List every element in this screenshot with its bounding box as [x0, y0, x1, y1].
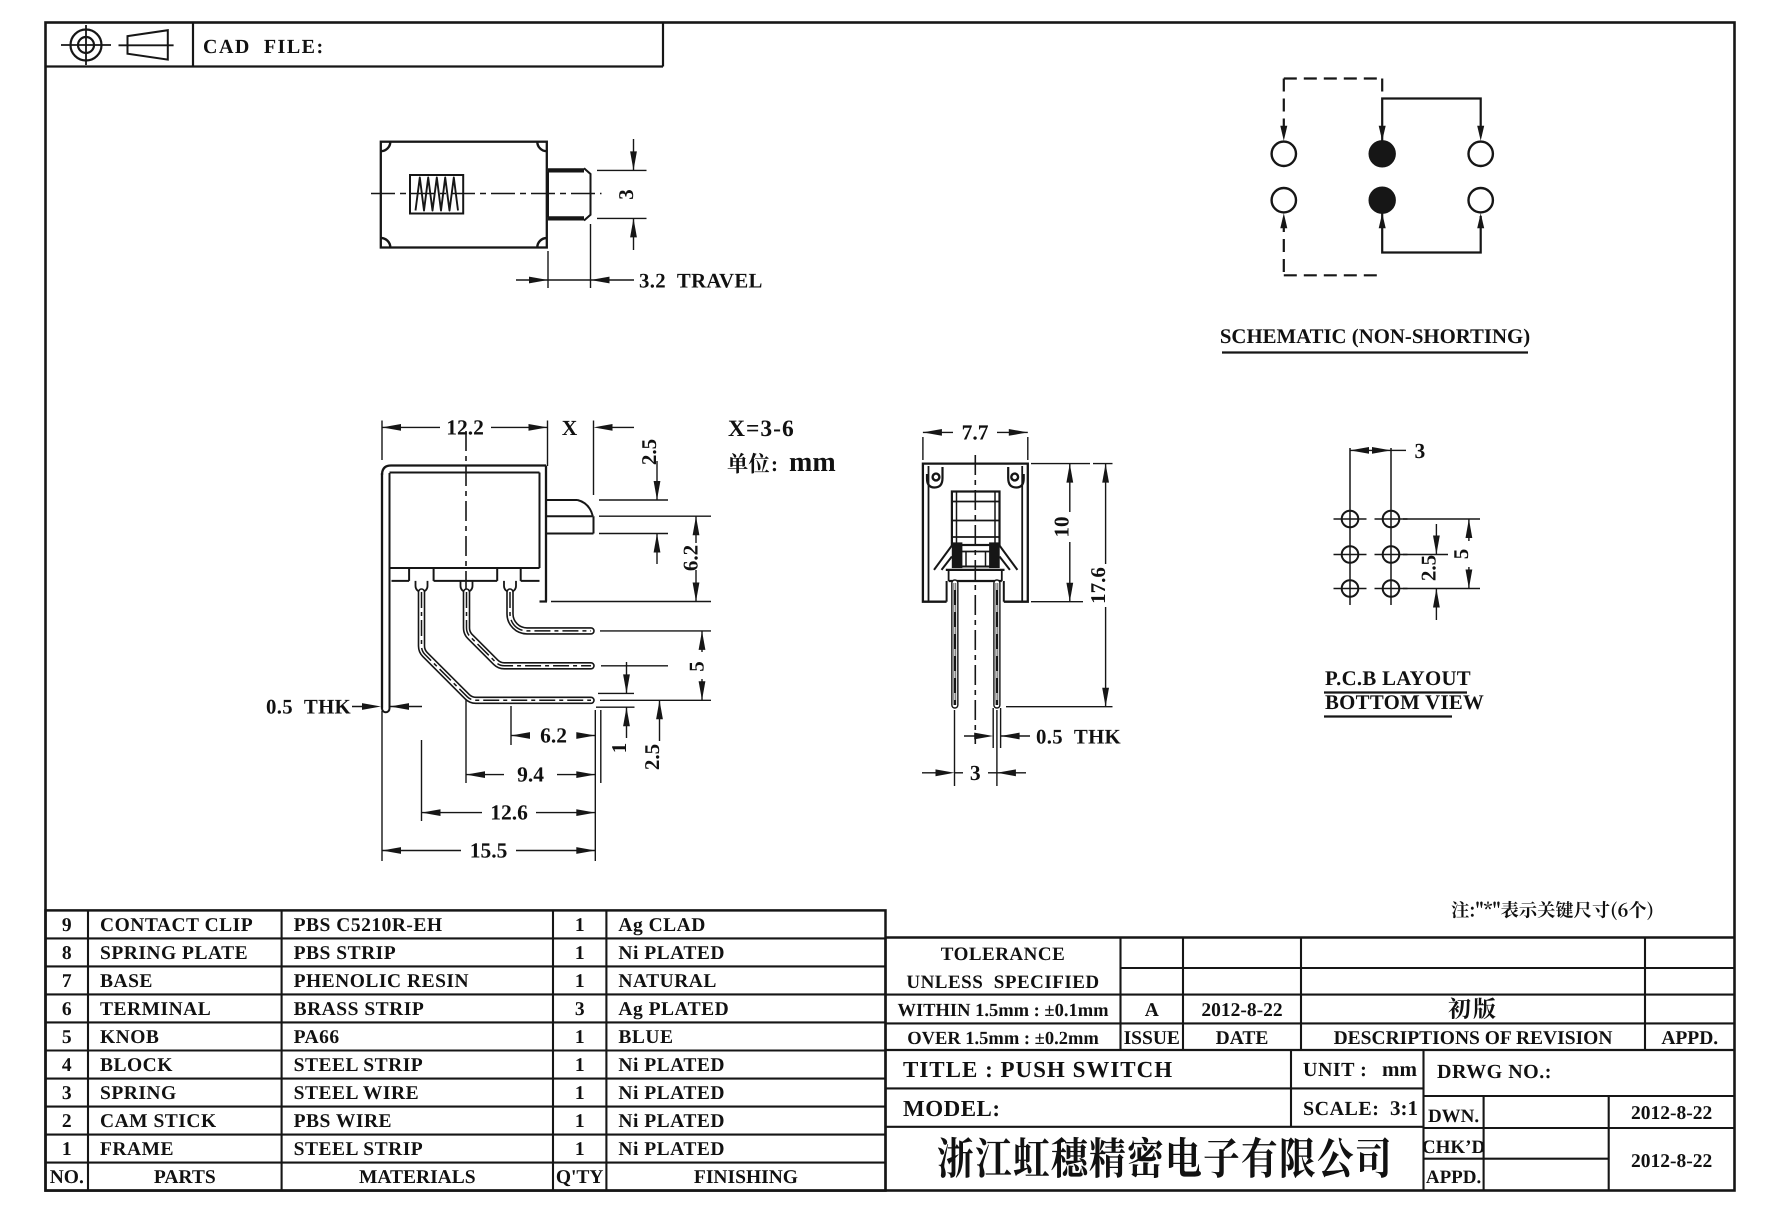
side view: frame front leg (0.5 thk) [389, 473, 391, 709]
svg-text:6: 6 [62, 999, 72, 1020]
top view: center line [371, 193, 602, 195]
front view: dim 10 [1031, 463, 1090, 465]
svg-text:2012-8-22: 2012-8-22 [1631, 1103, 1712, 1124]
schematic: dashed switch outline [1284, 77, 1382, 79]
svg-text:A: A [1145, 1000, 1159, 1021]
svg-text:10: 10 [1050, 517, 1074, 538]
title block grid [886, 936, 1735, 938]
svg-text:ISSUE: ISSUE [1124, 1028, 1180, 1049]
svg-text:PBS WIRE: PBS WIRE [294, 1111, 392, 1132]
svg-text:CAM STICK: CAM STICK [100, 1111, 217, 1132]
svg-text::: : [771, 452, 778, 476]
svg-text:Q'TY: Q'TY [556, 1167, 604, 1188]
side view: dim 2.5 (lower) [659, 700, 661, 741]
top view: spring zigzag [416, 178, 459, 211]
front view: center line [974, 455, 976, 744]
front view: leg extension lines [992, 708, 994, 748]
svg-text:NO.: NO. [50, 1167, 84, 1188]
svg-text:12.6: 12.6 [490, 801, 528, 825]
svg-text:PA66: PA66 [294, 1027, 340, 1048]
front view: body outline [923, 464, 1028, 602]
svg-text:X: X [562, 416, 578, 440]
pcb: dim 3 [1350, 449, 1391, 451]
svg-text:MODEL:: MODEL: [903, 1096, 1001, 1121]
side view: dim 1 (terminal thickness) [598, 692, 634, 694]
svg-text:OVER 1.5mm : ±0.2mm: OVER 1.5mm : ±0.2mm [907, 1029, 1099, 1049]
svg-text:STEEL STRIP: STEEL STRIP [294, 1139, 424, 1160]
front view: dim 7.7 [922, 437, 924, 460]
side view: dim 12.6 [422, 812, 483, 814]
top view: corner fillet arcs [381, 142, 391, 152]
svg-text:3: 3 [575, 999, 585, 1020]
side view: body inner lines [390, 472, 540, 474]
front view: frame ears [927, 467, 943, 488]
side view: dim 6.2 (right) [599, 515, 711, 517]
side view: bottom dimension extension lines [594, 710, 596, 861]
svg-text:PBS C5210R-EH: PBS C5210R-EH [294, 915, 443, 936]
svg-text:9: 9 [62, 915, 72, 936]
side view: center line [465, 431, 467, 592]
top view: plunger stem [548, 168, 584, 172]
svg-text:Ag CLAD: Ag CLAD [618, 915, 705, 936]
schematic: common terminal dots [1369, 141, 1395, 167]
svg-text:BOTTOM VIEW: BOTTOM VIEW [1325, 691, 1484, 714]
svg-text:CONTACT CLIP: CONTACT CLIP [100, 915, 253, 936]
pcb: dim 2.5 [1435, 524, 1437, 555]
svg-text:4: 4 [62, 1055, 72, 1076]
top view: spring housing box [410, 175, 463, 214]
svg-text:1: 1 [607, 743, 631, 754]
svg-text:2.5: 2.5 [1417, 555, 1441, 581]
front view: knob lower stem [962, 551, 990, 553]
side view: body outline outer [382, 466, 546, 476]
front view: knob [952, 492, 1000, 546]
front view: base plate [946, 569, 1005, 571]
svg-text:NATURAL: NATURAL [618, 971, 716, 992]
side view: dim 6.2 (bottom) [511, 735, 527, 737]
front view: dim 3 [922, 772, 948, 774]
front view: inner wall lines [928, 466, 930, 602]
schematic: terminal circles [1272, 142, 1296, 166]
svg-text:6.2: 6.2 [540, 724, 567, 748]
svg-text:5: 5 [685, 661, 709, 672]
side view: dim 9.4 [466, 774, 504, 776]
svg-text:12.2: 12.2 [446, 416, 484, 440]
svg-text:mm: mm [1382, 1057, 1417, 1081]
svg-text:UNLESS SPECIFIED: UNLESS SPECIFIED [906, 972, 1099, 993]
svg-text:2012-8-22: 2012-8-22 [1201, 1000, 1282, 1021]
side view: dim 12.2 [381, 421, 383, 461]
svg-text:DATE: DATE [1216, 1028, 1269, 1049]
svg-text:P.C.B LAYOUT: P.C.B LAYOUT [1325, 667, 1471, 690]
svg-text:0.5 THK: 0.5 THK [1036, 726, 1122, 749]
top view: dim 3.2 TRAVEL [547, 251, 549, 288]
side view: dim X [593, 421, 595, 496]
side view: right wall bottom [540, 600, 548, 602]
side view: dim 15.5 [382, 850, 461, 852]
side view: dim 2.5 (stem height) [599, 499, 668, 501]
note: key dimension remark [1452, 901, 1653, 920]
title block: company name [938, 1137, 1389, 1178]
svg-text:2012-8-22: 2012-8-22 [1631, 1151, 1712, 1172]
svg-text:X=3-6: X=3-6 [728, 416, 795, 442]
svg-text:1: 1 [575, 1083, 585, 1104]
schematic: wire top [1382, 99, 1481, 144]
svg-text:17.6: 17.6 [1086, 567, 1110, 604]
svg-text:SCALE:: SCALE: [1303, 1098, 1379, 1120]
svg-text:1: 1 [575, 971, 585, 992]
front view: contact clips [952, 543, 961, 568]
svg-text:1: 1 [575, 1111, 585, 1132]
top view: dim 3 (stem width) [597, 169, 647, 171]
svg-text:1: 1 [575, 943, 585, 964]
side view: terminal pins (double-line with centerline) [421, 592, 591, 700]
svg-text:DRWG NO.:: DRWG NO.: [1437, 1061, 1552, 1083]
svg-text:3: 3 [614, 189, 638, 200]
svg-text:BASE: BASE [100, 971, 153, 992]
svg-text:MATERIALS: MATERIALS [359, 1167, 476, 1188]
svg-text:PBS STRIP: PBS STRIP [294, 943, 397, 964]
svg-text:5: 5 [62, 1027, 72, 1048]
first-angle projection symbol: cone [128, 30, 168, 59]
svg-text:BLUE: BLUE [618, 1027, 673, 1048]
top view: switch body outline [381, 142, 547, 248]
svg-text:DESCRIPTIONS OF REVISION: DESCRIPTIONS OF REVISION [1334, 1028, 1613, 1049]
svg-text:WITHIN 1.5mm : ±0.1mm: WITHIN 1.5mm : ±0.1mm [897, 1001, 1109, 1021]
svg-text:Ni PLATED: Ni PLATED [618, 1083, 725, 1104]
svg-text:APPD.: APPD. [1426, 1167, 1481, 1188]
svg-text:Ag PLATED: Ag PLATED [618, 999, 729, 1020]
side view: U-notches at pin exits [416, 581, 428, 592]
svg-text:7: 7 [62, 971, 72, 992]
svg-text:BLOCK: BLOCK [100, 1055, 173, 1076]
svg-text:KNOB: KNOB [100, 1027, 159, 1048]
svg-text:UNIT :: UNIT : [1303, 1059, 1367, 1081]
svg-text:1: 1 [575, 1055, 585, 1076]
front view: dim 0.5 THK [964, 735, 986, 737]
schematic: wire bottom [1382, 212, 1481, 253]
svg-text:3: 3 [62, 1083, 72, 1104]
svg-text:1: 1 [575, 915, 585, 936]
front view: dim 17.6 [1093, 463, 1113, 465]
svg-text:5: 5 [1449, 549, 1473, 560]
svg-text:FINISHING: FINISHING [694, 1167, 798, 1188]
parts table grid [46, 910, 886, 1190]
CAD FILE header box [46, 65, 664, 67]
svg-text:1: 1 [575, 1027, 585, 1048]
svg-text:Ni PLATED: Ni PLATED [618, 1139, 725, 1160]
svg-text:TITLE : PUSH SWITCH: TITLE : PUSH SWITCH [903, 1057, 1173, 1082]
svg-text:Ni PLATED: Ni PLATED [618, 1111, 725, 1132]
svg-text:15.5: 15.5 [470, 839, 508, 863]
svg-text:DWN.: DWN. [1428, 1106, 1479, 1127]
pcb: row extension lines [1403, 518, 1480, 520]
svg-text:7.7: 7.7 [962, 421, 989, 445]
svg-text:1: 1 [62, 1139, 72, 1160]
svg-text:0.5 THK: 0.5 THK [266, 696, 352, 719]
svg-text:Ni PLATED: Ni PLATED [618, 1055, 725, 1076]
svg-text:2.5: 2.5 [637, 439, 661, 465]
svg-text:3: 3 [970, 761, 981, 785]
svg-text:SPRING: SPRING [100, 1083, 177, 1104]
schematic: arrows [1280, 126, 1287, 141]
svg-text:2: 2 [62, 1111, 72, 1132]
svg-text:Ni PLATED: Ni PLATED [618, 943, 725, 964]
pcb: dim 5 [1468, 519, 1470, 541]
svg-text:2.5: 2.5 [640, 744, 664, 770]
svg-text:BRASS STRIP: BRASS STRIP [294, 999, 425, 1020]
svg-text:3: 3 [1415, 439, 1426, 463]
side view: dim 5 (terminal span) [600, 630, 711, 632]
svg-text:SPRING PLATE: SPRING PLATE [100, 943, 248, 964]
svg-text:6.2: 6.2 [679, 545, 703, 571]
svg-text:9.4: 9.4 [517, 763, 544, 787]
svg-text:SCHEMATIC (NON-SHORTING): SCHEMATIC (NON-SHORTING) [1220, 325, 1530, 348]
svg-text:FRAME: FRAME [100, 1139, 174, 1160]
svg-text:PHENOLIC RESIN: PHENOLIC RESIN [294, 971, 470, 992]
front view: terminal legs [951, 583, 958, 705]
svg-text:8: 8 [62, 943, 72, 964]
svg-text:APPD.: APPD. [1661, 1028, 1718, 1049]
pcb: column center lines [1349, 448, 1351, 605]
first-angle projection symbol: target circle [71, 30, 102, 61]
svg-text:PARTS: PARTS [154, 1167, 216, 1188]
svg-text:TOLERANCE: TOLERANCE [941, 944, 1066, 965]
svg-text:3.2 TRAVEL: 3.2 TRAVEL [639, 270, 763, 293]
svg-text:CAD FILE:: CAD FILE: [203, 36, 325, 58]
side view: bottom teeth [392, 580, 410, 582]
side view: plunger stem [546, 499, 578, 501]
pcb: holes 2x3 with crosshairs [1342, 511, 1359, 528]
unit label 单位: mm [728, 453, 770, 474]
svg-text:STEEL STRIP: STEEL STRIP [294, 1055, 424, 1076]
svg-text:CHK’D: CHK’D [1422, 1137, 1485, 1158]
svg-text:TERMINAL: TERMINAL [100, 999, 211, 1020]
svg-text:1: 1 [575, 1139, 585, 1160]
svg-text:STEEL WIRE: STEEL WIRE [294, 1083, 420, 1104]
svg-text:3:1: 3:1 [1390, 1096, 1418, 1120]
svg-text:mm: mm [789, 447, 836, 478]
